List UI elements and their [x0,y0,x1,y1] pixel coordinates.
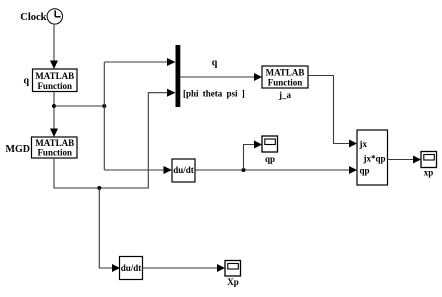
wire branch up to qp scope [244,145,255,171]
node junction on q wire [52,104,56,108]
wire MGD branch to bottom du/dt [99,188,112,268]
wire bottom du/dt out to Xp scope [143,267,218,269]
du/dt derivative block (middle) [172,159,195,182]
wire branch q to vertical bus [54,105,104,107]
svg-text:MATLAB: MATLAB [266,68,305,78]
svg-text:qp: qp [265,154,275,164]
svg-text:qp: qp [360,166,370,176]
wire j_a out to jx input [308,76,349,144]
svg-text:MATLAB: MATLAB [35,71,74,81]
svg-text:xp: xp [424,168,434,178]
wire du/dt out to jx qp input [195,169,349,171]
MATLAB Fcn block U1 (q) [33,69,78,92]
scope qp [262,136,278,152]
node junction qp [242,168,246,172]
svg-text:q: q [23,76,29,87]
svg-text:MATLAB: MATLAB [35,138,74,148]
svg-text:jx: jx [359,139,368,149]
MATLAB Fcn block MGD [32,137,78,158]
jx function block [357,130,388,185]
svg-text:Function: Function [37,81,72,91]
svg-text:jx*qp: jx*qp [363,154,386,164]
clock icon [47,9,62,24]
wire q to du/dt [104,169,163,171]
du/dt derivative block (bottom) [120,257,143,280]
scope Xp [225,261,241,277]
node junction [102,104,106,108]
node junction on MGD wire [97,186,101,190]
Mux bar [176,45,181,107]
svg-text:du/dt: du/dt [173,165,194,175]
wire jx out to xp scope [388,159,414,161]
svg-text:[phi theta psi ]: [phi theta psi ] [183,89,245,99]
MATLAB Fcn block j_a [262,66,308,88]
svg-text:MGD: MGD [6,144,30,155]
svg-text:q: q [212,58,218,69]
svg-text:Function: Function [268,78,303,88]
svg-text:Function: Function [37,148,72,158]
wire Clock to MATLAB Fcn q [53,25,55,62]
wire vertical q bus [103,62,105,170]
svg-text:Clock: Clock [20,12,46,23]
wire U1 to MGD block [53,92,55,131]
svg-text:j_a: j_a [278,90,291,100]
svg-text:Xp: Xp [227,277,239,287]
scope xp [421,152,437,168]
wire q to Mux input 1 [104,61,167,63]
wire MGD out to Mux input 2 [54,93,167,188]
svg-text:du/dt: du/dt [121,263,142,273]
wire Mux out to j_a [180,76,254,78]
